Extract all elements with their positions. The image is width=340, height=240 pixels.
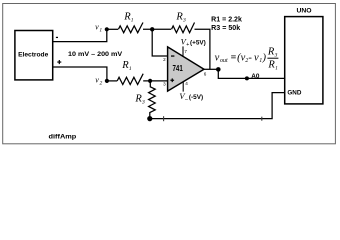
svg-text:1: 1 xyxy=(129,66,132,72)
resistor R3 top feedback xyxy=(172,23,195,33)
electrode source block xyxy=(15,31,53,80)
svg-text:R3 = 50k: R3 = 50k xyxy=(211,25,240,32)
node A0 xyxy=(245,76,249,80)
svg-text:1: 1 xyxy=(99,28,102,34)
svg-text:- v: - v xyxy=(248,52,259,63)
minus terminal label xyxy=(56,37,58,38)
svg-text:1: 1 xyxy=(275,66,278,72)
resistor R3 bottom vertical xyxy=(149,81,156,119)
svg-text:R1 = 2.2k: R1 = 2.2k xyxy=(211,16,242,23)
wire op-amp output to vout node xyxy=(204,68,218,70)
junction node at inverting input xyxy=(150,27,154,31)
wire vout to UNO A0 xyxy=(218,69,284,78)
svg-text:2: 2 xyxy=(163,57,166,62)
svg-text:3: 3 xyxy=(274,52,278,58)
wire R3 to feedback corner down to output xyxy=(195,29,210,69)
node vout xyxy=(216,67,221,72)
svg-text:diffAmp: diffAmp xyxy=(49,133,77,140)
node R3 bottom on ground rail xyxy=(147,116,152,121)
node v1 xyxy=(105,27,109,31)
svg-text:2: 2 xyxy=(100,81,103,87)
wire UNO GND to ground rail xyxy=(150,93,285,119)
wire junction to op-amp pin 2 inverting input xyxy=(152,29,167,56)
svg-text:(+5V): (+5V) xyxy=(190,39,206,46)
junction node at non-inverting input xyxy=(148,79,152,83)
resistor R1 bottom xyxy=(117,74,143,85)
svg-text:–: – xyxy=(185,96,188,102)
svg-text:): ) xyxy=(262,52,267,63)
bendpoint mark left xyxy=(163,116,165,121)
wire R1 bottom to pin 3 xyxy=(143,80,167,82)
border frame xyxy=(3,4,336,144)
wire v2 to R1 bottom xyxy=(107,80,117,82)
svg-text:3: 3 xyxy=(141,100,145,106)
svg-text:741: 741 xyxy=(173,64,184,73)
wire R1 to junction to R3 xyxy=(143,28,171,30)
svg-text:out: out xyxy=(220,58,228,64)
svg-text:=: = xyxy=(231,52,237,63)
svg-text:UNO: UNO xyxy=(296,8,311,15)
svg-text:GND: GND xyxy=(287,90,301,97)
bendpoint mark right xyxy=(261,117,263,121)
pin 7 stub xyxy=(182,46,184,57)
svg-text:Electrode: Electrode xyxy=(18,52,49,59)
wire electrode plus terminal to v2 xyxy=(53,67,107,81)
wire v1 to R1 xyxy=(107,28,118,30)
svg-text:3: 3 xyxy=(163,82,166,87)
resistor R1 top xyxy=(118,23,143,33)
svg-text:4: 4 xyxy=(185,81,188,86)
pin 4 stub xyxy=(182,82,184,92)
svg-text:+: + xyxy=(186,42,189,48)
svg-text:10 mV – 200 mV: 10 mV – 200 mV xyxy=(68,51,123,58)
svg-text:3: 3 xyxy=(182,18,186,24)
Arduino UNO block xyxy=(285,17,323,104)
op-amp minus mark xyxy=(171,55,174,56)
plus terminal label xyxy=(57,60,61,64)
svg-text:1: 1 xyxy=(131,18,134,24)
svg-text:7: 7 xyxy=(184,49,187,54)
formula vout = (v2 - v1) R3/R1 xyxy=(215,47,279,72)
op-amp plus mark xyxy=(170,78,174,82)
node v2 xyxy=(105,79,109,83)
op-amp U1 741 xyxy=(168,47,204,91)
svg-text:6: 6 xyxy=(204,72,207,77)
wire electrode minus terminal to v1 xyxy=(53,29,107,41)
svg-text:v: v xyxy=(215,52,220,63)
svg-text:A0: A0 xyxy=(251,73,260,80)
svg-text:(-5V): (-5V) xyxy=(189,94,203,101)
